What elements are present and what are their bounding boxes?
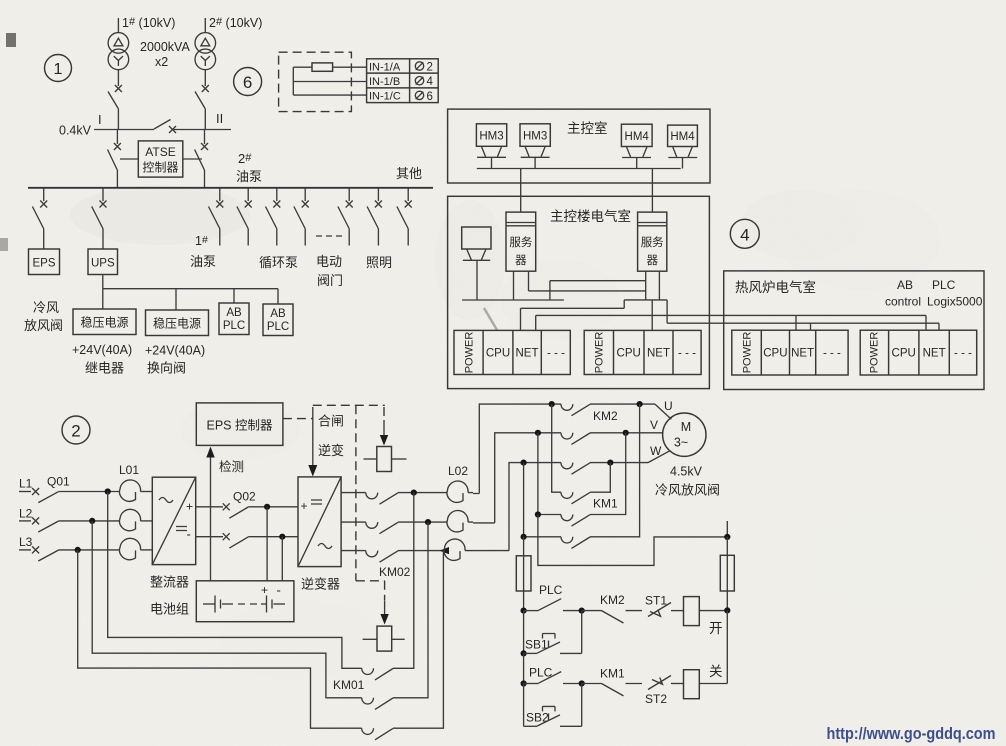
net wire H4 — [521, 307, 625, 309]
svg-text:V: V — [650, 418, 658, 432]
transformer T2 incoming stub — [204, 18, 206, 32]
close coil box — [684, 610, 728, 698]
main LV bus — [28, 187, 433, 189]
inductor L01 phase 3 — [119, 538, 152, 559]
net wire H2 — [529, 290, 646, 292]
svg-text:NET: NET — [647, 348, 670, 360]
svg-text:PLC: PLC — [267, 321, 289, 333]
svg-text:KM2: KM2 — [600, 593, 625, 607]
svg-text:控制器: 控制器 — [142, 161, 178, 175]
junction dot SB1 — [521, 650, 527, 656]
svg-text:2: 2 — [427, 62, 433, 74]
svg-text:逆变器: 逆变器 — [301, 577, 340, 592]
svg-text:6: 6 — [243, 73, 252, 92]
svg-text:POWER: POWER — [869, 332, 881, 374]
DC minus wire with switch Q02b — [196, 533, 298, 548]
svg-text:+: + — [186, 500, 193, 514]
svg-text:3~: 3~ — [674, 436, 688, 450]
phase L1 wire and switch — [19, 488, 120, 503]
junction dot KM2 row1 left — [549, 401, 555, 407]
net drop H5 to rack3 NET — [795, 315, 797, 330]
svg-text:KM2: KM2 — [593, 409, 618, 423]
right rail stub — [726, 521, 728, 537]
svg-text:AB: AB — [270, 308, 286, 320]
transformer T2 — [195, 33, 216, 70]
svg-text:整流器: 整流器 — [150, 575, 189, 590]
svg-text:其他: 其他 — [396, 166, 422, 181]
svg-text:KM02: KM02 — [379, 565, 411, 579]
server 2 — [638, 212, 667, 271]
svg-text:1# (10kV): 1# (10kV) — [122, 16, 175, 30]
svg-text:+: + — [261, 583, 268, 597]
junction dot rung2 left — [521, 680, 527, 686]
svg-text:循环泵: 循环泵 — [259, 255, 298, 270]
bus tie switch blade — [154, 120, 171, 130]
KM02 contact row 1 — [341, 493, 447, 505]
PLC contact rung 1 — [524, 599, 582, 611]
wire T2 to breaker — [204, 70, 206, 86]
junction dot DC plus — [264, 504, 270, 510]
arrow node KM02 row3 — [440, 547, 450, 554]
junction dot KM02 row2 — [425, 519, 431, 525]
breaker QF1 (x mark and blade) — [108, 85, 122, 130]
feeder breaker electric valve — [338, 188, 353, 246]
net wire H6 long — [667, 322, 939, 324]
svg-text:稳压电源: 稳压电源 — [153, 316, 201, 331]
DC plus wire with switch Q02a — [196, 503, 298, 518]
junction dot rung1 mid — [579, 608, 585, 614]
net wire H5 long — [536, 314, 926, 316]
svg-text:冷风放风阀: 冷风放风阀 — [655, 483, 720, 498]
rectifier box — [152, 477, 195, 564]
net drop V1 — [549, 281, 551, 300]
phase L3 wire and switch — [19, 546, 120, 561]
svg-text:CPU: CPU — [892, 348, 916, 360]
net wire H3 right — [624, 299, 667, 301]
motor feed U diagonal — [655, 404, 671, 419]
riser to server 2 — [651, 169, 653, 213]
open coil box — [684, 597, 728, 626]
svg-text:ST2: ST2 — [645, 692, 667, 706]
svg-text:IN-1/B: IN-1/B — [369, 76, 400, 88]
inductor L02 phase 1 — [447, 481, 479, 502]
AB PLC box 1 — [219, 303, 249, 335]
svg-text:Logix5000: Logix5000 — [927, 295, 983, 309]
KM2 contact row 2 — [561, 433, 663, 445]
phase L2 wire and switch — [19, 517, 120, 532]
circled number 4 — [730, 219, 759, 248]
wire ATSE to breaker I — [120, 158, 138, 160]
junction dot rung1 right — [724, 607, 730, 613]
network wiring bundle left room — [462, 271, 939, 330]
svg-text:I: I — [98, 112, 102, 127]
KM2 aux contact rung 1 — [582, 611, 642, 623]
svg-text:POWER: POWER — [742, 332, 754, 374]
svg-text:PLC: PLC — [932, 278, 956, 292]
junction dot motor V — [623, 430, 629, 436]
svg-text:阀门: 阀门 — [317, 273, 343, 288]
circled number 2 — [62, 416, 90, 444]
junction dot right rail top — [724, 534, 730, 540]
net drop H5 to rack4 NET — [925, 315, 927, 330]
hot blast stove electrical room box — [724, 271, 984, 390]
feeder breaker 1# oil pump — [209, 188, 224, 246]
net drop H6 to rack4 — [938, 323, 940, 330]
junction dot rung1 left — [521, 608, 527, 614]
feeder breaker 2 — [237, 188, 252, 246]
net wire H3 left — [462, 299, 564, 301]
scan artifact marks — [6, 33, 16, 47]
net wire H1 — [550, 280, 646, 282]
svg-text:放风阀: 放风阀 — [24, 318, 63, 333]
feeder breaker UPS — [92, 188, 107, 249]
svg-text:Q02: Q02 — [233, 490, 256, 504]
junction dot L1 — [105, 488, 111, 494]
KM1 aux contact rung 2 — [582, 684, 642, 696]
pushbutton SB1 — [524, 611, 582, 654]
HMI HM4 no.1 — [621, 124, 652, 168]
wire T1 to breaker — [117, 70, 119, 86]
svg-text:热风炉电气室: 热风炉电气室 — [735, 279, 816, 295]
regulated PSU box 1 — [73, 309, 136, 335]
ATSE incomer breaker II — [195, 130, 208, 188]
fuse FU1 — [516, 537, 531, 611]
svg-text:1#: 1# — [195, 234, 208, 248]
closing relay coil with down arrow — [364, 407, 407, 472]
junction dot motor W — [607, 460, 613, 466]
PLC rack 3 — [732, 330, 848, 375]
KM01 contact row 1 — [362, 493, 414, 680]
svg-text:4: 4 — [740, 226, 749, 245]
bus tie x mark — [169, 126, 176, 133]
battery tap wires — [267, 507, 282, 581]
svg-text:2#: 2# — [238, 151, 252, 166]
svg-text:HM3: HM3 — [523, 131, 547, 143]
ellipsis dashes between feeders — [316, 235, 342, 237]
wire server2 pin B — [658, 271, 660, 300]
wire server1 pin B — [528, 271, 530, 291]
svg-text:L1: L1 — [19, 477, 33, 491]
inductor L01 phase 2 — [119, 509, 152, 530]
ATSE incomer breaker I — [108, 130, 121, 188]
svg-text:-: - — [187, 527, 191, 542]
svg-text:6: 6 — [427, 91, 433, 103]
svg-text:合闸: 合闸 — [318, 414, 344, 429]
routing wire phase3 to KM01 — [78, 550, 362, 728]
svg-text:CPU: CPU — [617, 348, 641, 360]
motor M 3~ — [663, 413, 706, 456]
junction dot DC minus — [279, 534, 285, 540]
KM01 contact row 3 — [362, 551, 444, 740]
KM01 contact row 2 — [362, 522, 428, 709]
svg-text:HM4: HM4 — [670, 131, 695, 143]
battery cells symbol — [203, 596, 285, 613]
KM1 contact row 1 — [552, 404, 611, 504]
svg-text:CPU: CPU — [486, 348, 510, 360]
inductor L02 phase 2 — [447, 511, 495, 532]
wire server2 pin A — [645, 271, 647, 300]
inductor L02 phase 3 — [444, 539, 509, 560]
svg-text:II: II — [216, 111, 223, 126]
svg-text:POWER: POWER — [594, 332, 606, 374]
limit switch ST2 — [648, 676, 684, 690]
svg-text:器: 器 — [646, 254, 658, 267]
control tap wire to right rail — [538, 515, 727, 566]
svg-text:HM4: HM4 — [625, 131, 650, 143]
svg-text:继电器: 继电器 — [85, 361, 124, 376]
svg-text:1: 1 — [54, 61, 63, 78]
motor feed W diagonal — [648, 451, 670, 463]
junction dot KM1 row3 left — [521, 534, 527, 540]
wire UPS distribution — [103, 275, 278, 311]
workstation device — [462, 227, 491, 300]
svg-text:- - -: - - - — [678, 348, 696, 360]
dashed control link top run — [313, 404, 385, 406]
battery box — [196, 581, 294, 622]
svg-text:检测: 检测 — [219, 459, 244, 474]
wires in detail box — [293, 67, 366, 95]
riser L02-3 to KM2 row3 — [509, 463, 561, 551]
svg-text:x2: x2 — [155, 55, 168, 69]
svg-text:服务: 服务 — [509, 235, 532, 249]
svg-text:ATSE: ATSE — [145, 145, 175, 159]
server 1 — [506, 212, 536, 271]
svg-text:4.5kV: 4.5kV — [670, 465, 703, 479]
junction dot KM1 row2 left — [535, 511, 541, 517]
feeder breaker circulation pump — [266, 188, 281, 246]
svg-text:PLC: PLC — [223, 320, 245, 332]
svg-text:HM3: HM3 — [479, 131, 503, 143]
svg-text:L01: L01 — [119, 463, 139, 477]
svg-text:NET: NET — [516, 348, 539, 360]
junction dot KM2 row2 left — [535, 430, 541, 436]
pushbutton SB2 — [524, 684, 582, 727]
wire ATSE to breaker II — [183, 158, 202, 160]
main control building electrical room box — [448, 196, 710, 388]
svg-text:+24V(40A): +24V(40A) — [72, 343, 132, 357]
HMI network bus — [477, 168, 681, 170]
svg-text:NET: NET — [791, 348, 814, 360]
svg-text:L2: L2 — [19, 507, 33, 521]
svg-text:KM1: KM1 — [593, 497, 618, 511]
svg-text:EPS: EPS — [32, 258, 55, 270]
svg-text:+24V(40A): +24V(40A) — [145, 344, 205, 358]
HMI HM3 no.1 — [476, 124, 506, 169]
UPS box — [88, 249, 118, 275]
svg-text:U: U — [664, 399, 673, 413]
svg-text:http://www.go-gddq.com: http://www.go-gddq.com — [827, 725, 996, 743]
svg-text:关: 关 — [709, 664, 723, 679]
riser L02-2 to KM2 row2 — [495, 433, 561, 523]
svg-text:L3: L3 — [19, 535, 33, 549]
svg-text:IN-1/C: IN-1/C — [369, 91, 401, 103]
limit switch ST1 — [648, 603, 684, 617]
svg-text:PLC: PLC — [539, 583, 563, 597]
svg-text:照明: 照明 — [366, 255, 392, 270]
svg-text:KM01: KM01 — [333, 678, 365, 692]
riser L02-1 to KM2 row1 — [479, 404, 561, 493]
net drop H5 to rack1 — [535, 315, 537, 330]
svg-text:AB: AB — [897, 278, 913, 292]
svg-text:电动: 电动 — [316, 254, 342, 269]
inverter box — [298, 477, 341, 567]
inverting relay coil with down arrow — [363, 601, 405, 651]
KM2 contact row 1 — [561, 404, 655, 416]
routing wire phase1 to KM01 — [108, 492, 362, 669]
svg-text:换向阀: 换向阀 — [147, 361, 186, 376]
KM1 contact row 3 — [524, 404, 640, 548]
net drop to rack1 NET — [520, 308, 522, 330]
svg-text:电池组: 电池组 — [150, 602, 189, 617]
svg-text:冷风: 冷风 — [33, 300, 59, 315]
KM2 contact row 3 — [561, 463, 648, 475]
dashed detail box of circuit 6 — [279, 52, 352, 111]
svg-text:油泵: 油泵 — [236, 169, 262, 184]
feeder breaker 4 — [294, 188, 309, 246]
terminal table IN-1 — [367, 59, 439, 103]
svg-text:+: + — [301, 499, 308, 513]
AB PLC box 2 — [263, 304, 293, 336]
svg-text:逆变: 逆变 — [318, 443, 344, 458]
svg-text:Q01: Q01 — [47, 475, 70, 489]
svg-text:- - -: - - - — [823, 348, 841, 360]
svg-text:油泵: 油泵 — [190, 254, 216, 269]
inductor L01 phase 1 — [119, 480, 152, 501]
regulated PSU box 2 — [146, 310, 209, 336]
svg-text:- - -: - - - — [954, 348, 972, 360]
net drop to rack2 NET — [651, 300, 653, 331]
KM02 contact row 2 — [341, 522, 447, 534]
fuse FU2 — [720, 537, 734, 611]
svg-text:KM1: KM1 — [600, 667, 625, 681]
ATSE controller box — [138, 141, 183, 177]
feeder breaker EPS — [32, 188, 47, 249]
junction dot motor U — [637, 401, 643, 407]
HMI HM4 no.2 — [668, 125, 698, 168]
routing wire phase2 to KM01 — [92, 521, 362, 698]
junction dot KM02 row1 — [411, 490, 417, 496]
KM02 contact row 3 — [341, 551, 446, 563]
svg-text:-: - — [277, 583, 281, 598]
breaker QF2 — [195, 85, 209, 130]
svg-text:主控室: 主控室 — [567, 120, 608, 136]
dashed control link EPS to inverter arrow — [283, 407, 317, 477]
PLC rack 2 — [584, 330, 701, 374]
SB1 branch wire — [523, 611, 525, 654]
junction dot L2 — [89, 518, 95, 524]
PLC rack 4 — [860, 330, 977, 375]
junction dot KM2 row3 left — [521, 460, 527, 466]
svg-text:4: 4 — [427, 76, 434, 88]
SB2 branch wire — [523, 684, 525, 727]
net riser H6-H3 — [666, 300, 668, 323]
riser to server 1 — [520, 169, 522, 213]
bus 0.4kV section I — [94, 129, 154, 131]
svg-text:2000kVA: 2000kVA — [140, 40, 190, 54]
svg-text:W: W — [650, 444, 662, 458]
svg-text:2: 2 — [71, 422, 80, 441]
dashed enclosure line KM02 — [356, 405, 385, 601]
svg-text:0.4kV: 0.4kV — [59, 124, 92, 138]
svg-text:IN-1/A: IN-1/A — [369, 62, 401, 74]
detection line with up arrow — [206, 447, 214, 581]
PLC contact rung 2 — [524, 672, 582, 684]
svg-text:开: 开 — [709, 621, 723, 636]
EPS controller box — [196, 403, 283, 446]
svg-text:CPU: CPU — [763, 348, 787, 360]
PLC rack 1 — [454, 330, 570, 374]
circled number 1 — [45, 55, 72, 82]
svg-text:主控楼电气室: 主控楼电气室 — [550, 208, 631, 224]
wire server1 pin A — [513, 271, 515, 300]
junction dot L3 — [75, 547, 81, 553]
svg-text:EPS 控制器: EPS 控制器 — [207, 419, 273, 433]
rail wire to rung2 — [523, 653, 525, 683]
transformer T1 incoming stub — [117, 18, 119, 32]
bus 0.4kV section II — [173, 129, 232, 131]
net drop H6 to rack3 — [810, 323, 812, 330]
svg-text:AB: AB — [226, 307, 242, 319]
svg-text:POWER: POWER — [464, 332, 476, 374]
KM1 contact row 2 — [538, 433, 626, 526]
EPS box — [29, 249, 60, 275]
svg-text:ST1: ST1 — [645, 594, 667, 608]
feeder breaker other — [397, 188, 412, 246]
HMI HM3 no.2 — [520, 124, 550, 169]
junction dot rung2 mid — [579, 680, 585, 686]
svg-text:UPS: UPS — [91, 258, 115, 270]
svg-text:NET: NET — [923, 348, 946, 360]
svg-text:服务: 服务 — [641, 235, 664, 249]
svg-text:control: control — [885, 295, 921, 309]
svg-text:L02: L02 — [448, 464, 468, 478]
svg-text:2# (10kV): 2# (10kV) — [209, 16, 262, 30]
main control room box — [448, 109, 710, 183]
resistor element in detail — [312, 63, 333, 71]
svg-text:M: M — [681, 420, 691, 434]
svg-text:稳压电源: 稳压电源 — [80, 315, 128, 330]
circled number 6 — [234, 68, 262, 96]
transformer T1 — [108, 33, 129, 70]
net riser H4-H3 — [623, 300, 625, 308]
svg-text:器: 器 — [515, 254, 527, 267]
feeder breaker lighting — [367, 188, 382, 246]
svg-text:- - -: - - - — [547, 348, 565, 360]
